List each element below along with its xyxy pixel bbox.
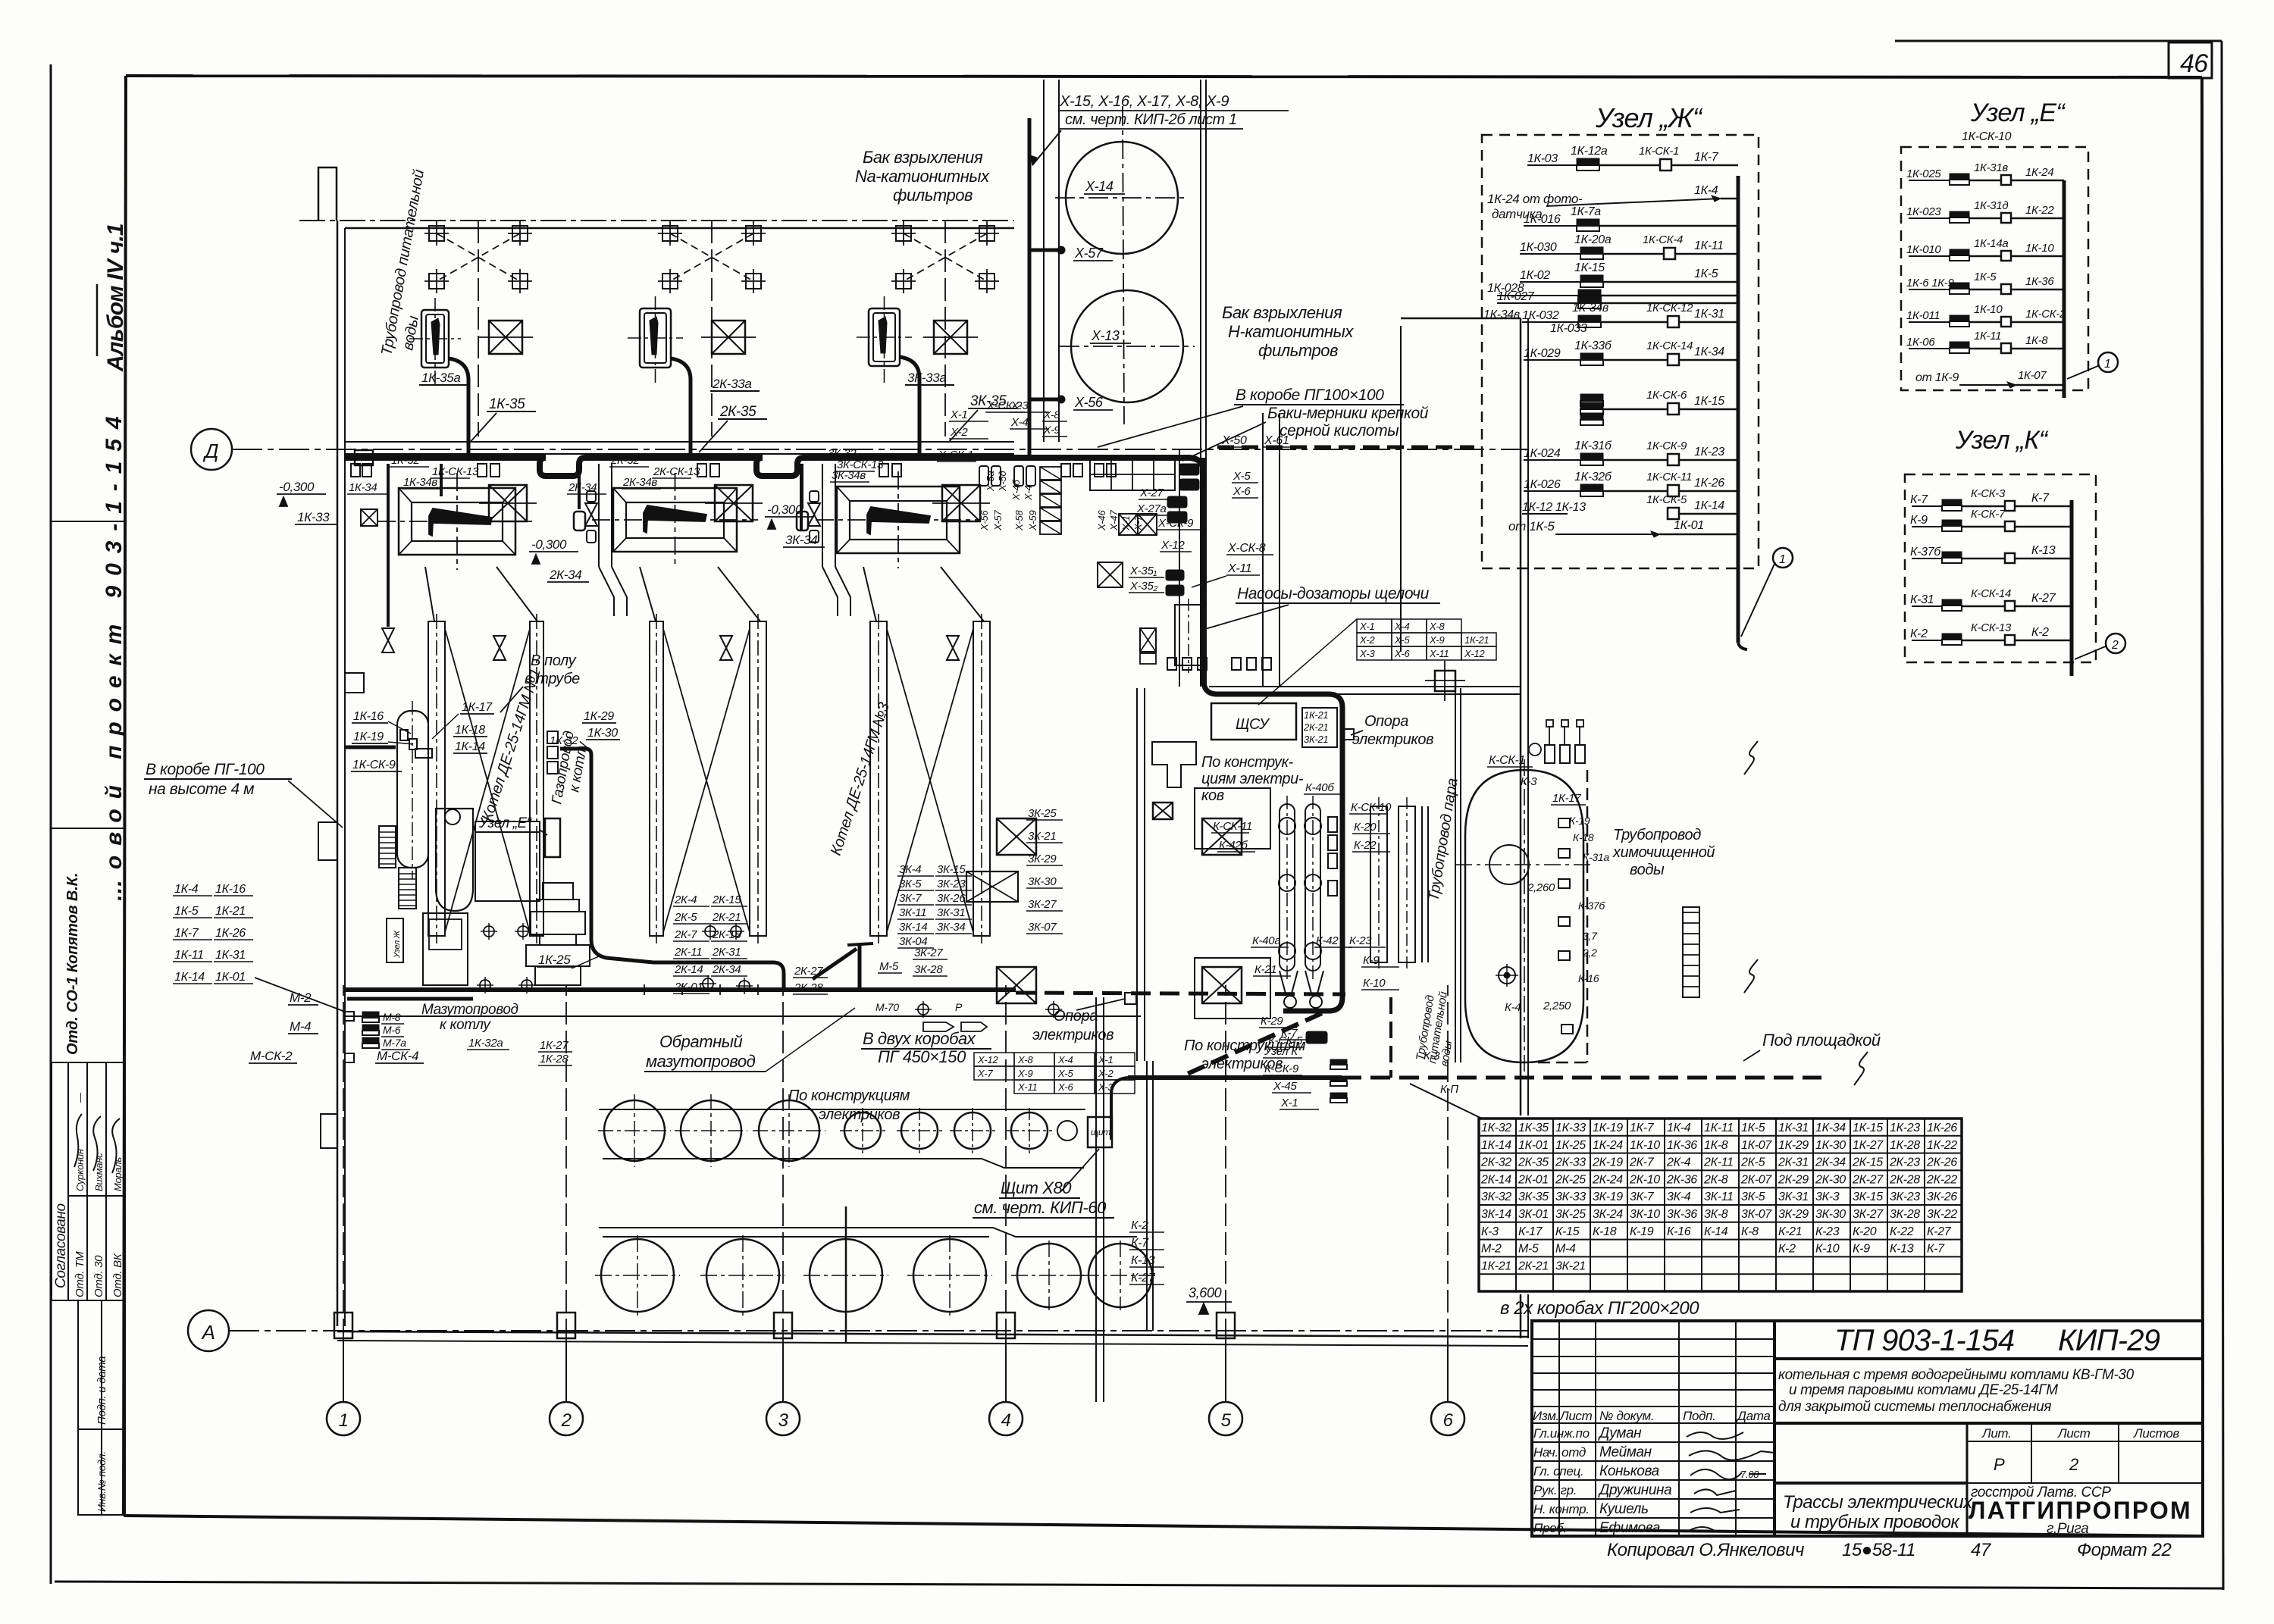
svg-text:Х-57: Х-57	[1074, 246, 1104, 261]
boiler 3 funnel	[863, 567, 876, 621]
svg-text:Р: Р	[955, 1001, 963, 1013]
svg-text:К-18: К-18	[1593, 1225, 1617, 1238]
svg-text:3К-27: 3К-27	[1853, 1208, 1884, 1221]
diagonal dashed to lower run	[1182, 1013, 1322, 1076]
small fixtures near drum	[400, 730, 408, 740]
svg-text:1К-25: 1К-25	[1555, 1139, 1586, 1152]
svg-text:1К-25: 1К-25	[538, 953, 571, 967]
leader from X-table	[1258, 619, 1357, 705]
svg-text:К-40б: К-40б	[1305, 781, 1334, 794]
svg-text:2К-4: 2К-4	[1666, 1156, 1691, 1169]
svg-text:Узел „Е“: Узел „Е“	[1970, 99, 2066, 127]
svg-text:К-40а: К-40а	[1252, 934, 1280, 947]
crossed box single	[1098, 562, 1123, 587]
svg-text:3К-21: 3К-21	[1555, 1259, 1586, 1272]
fixtures column x725	[547, 731, 558, 743]
svg-text:К-27: К-27	[1927, 1225, 1952, 1238]
svg-text:К-10: К-10	[1815, 1243, 1840, 1256]
svg-text:1К-35а: 1К-35а	[421, 371, 460, 385]
boiler 3 crossed box upper	[934, 321, 967, 354]
svg-text:3К-5: 3К-5	[1741, 1191, 1765, 1203]
svg-text:1К-32: 1К-32	[1481, 1122, 1511, 1134]
frame right	[2202, 77, 2203, 1536]
svg-text:5: 5	[1221, 1410, 1232, 1431]
svg-text:Х-1: Х-1	[950, 408, 967, 421]
svg-text:3К-7: 3К-7	[1630, 1191, 1655, 1203]
svg-text:Дата: Дата	[1736, 1409, 1771, 1423]
svg-text:1К-18: 1К-18	[455, 724, 485, 737]
svg-text:1К-024: 1К-024	[1524, 447, 1561, 460]
svg-text:Х-2: Х-2	[1098, 1068, 1114, 1079]
svg-text:1К-033: 1К-033	[1550, 322, 1587, 335]
svg-text:3К-33а: 3К-33а	[907, 371, 946, 385]
svg-text:1К-22: 1К-22	[2025, 204, 2054, 217]
svg-text:К-42: К-42	[1316, 934, 1339, 947]
svg-text:Х-9: Х-9	[1429, 634, 1444, 646]
svg-text:Обратный: Обратный	[659, 1032, 742, 1051]
svg-text:2К-21: 2К-21	[1303, 721, 1328, 733]
node Zh dashed box	[1482, 135, 1759, 568]
title block thick divider	[1773, 1321, 1776, 1536]
svg-text:1К-31: 1К-31	[215, 949, 246, 962]
svg-text:1К-34: 1К-34	[1694, 346, 1724, 358]
svg-text:К-СК-13: К-СК-13	[1971, 621, 2012, 634]
svg-text:на высоте 4 м: на высоте 4 м	[149, 781, 254, 798]
svg-text:3К-34: 3К-34	[937, 921, 965, 934]
big equipment rect	[475, 821, 540, 901]
svg-text:К-7: К-7	[2031, 492, 2050, 505]
svg-text:1К-10: 1К-10	[1630, 1139, 1660, 1152]
signature 6	[1689, 1527, 1715, 1531]
svg-text:2: 2	[2069, 1455, 2078, 1474]
frame top	[126, 76, 2202, 77]
svg-text:1К-16: 1К-16	[353, 710, 384, 723]
svg-text:Х-35₁: Х-35₁	[1129, 565, 1157, 577]
svg-text:Х-7: Х-7	[1132, 515, 1144, 531]
svg-text:2К-30: 2К-30	[1815, 1173, 1846, 1186]
svg-text:К-СК-7: К-СК-7	[1971, 508, 2006, 521]
svg-text:в трубе: в трубе	[525, 671, 580, 687]
boiler 1 brace X2	[445, 629, 530, 932]
svg-text:1К-7: 1К-7	[1694, 151, 1719, 164]
svg-text:1К-22: 1К-22	[1927, 1139, 1957, 1152]
sidebar cell inv no	[78, 1429, 125, 1515]
svg-text:№ докум.: № докум.	[1599, 1409, 1654, 1423]
svg-text:Х-47: Х-47	[1108, 510, 1120, 531]
wall crossed box	[361, 509, 377, 526]
dashed electric run to SCU	[1016, 993, 1345, 994]
svg-text:Х-6: Х-6	[1394, 648, 1410, 659]
svg-text:2К-10: 2К-10	[1629, 1173, 1660, 1186]
svg-text:М-2: М-2	[1481, 1243, 1502, 1256]
svg-text:3К-30: 3К-30	[1815, 1208, 1846, 1221]
svg-text:1К-31б: 1К-31б	[1574, 440, 1612, 452]
lit column	[1966, 1423, 1969, 1483]
svg-text:1К-СК-13: 1К-СК-13	[432, 465, 479, 478]
node K dashed box	[1905, 474, 2096, 662]
svg-text:1К-01: 1К-01	[215, 971, 246, 984]
svg-text:К-7: К-7	[1927, 1243, 1945, 1256]
svg-text:К-СК-10: К-СК-10	[1351, 801, 1392, 814]
svg-text:3К-10: 3К-10	[1630, 1208, 1660, 1221]
svg-text:1К-14: 1К-14	[174, 971, 205, 984]
svg-text:Х-59: Х-59	[1027, 511, 1038, 531]
svg-text:2К-18: 2К-18	[712, 928, 741, 941]
svg-text:Х-1: Х-1	[1120, 516, 1132, 531]
svg-text:1К-01: 1К-01	[1518, 1139, 1549, 1152]
svg-text:ТП 903-1-154: ТП 903-1-154	[1834, 1324, 2014, 1357]
svg-text:-0,300: -0,300	[279, 480, 315, 494]
svg-text:1К-5: 1К-5	[1694, 268, 1718, 280]
svg-text:Думан: Думан	[1598, 1425, 1642, 1441]
svg-text:1К-34: 1К-34	[1815, 1122, 1846, 1134]
X-table near SCU	[1357, 619, 1392, 633]
boiler 3 brace X1	[887, 629, 973, 932]
svg-text:Рук. гр.: Рук. гр.	[1533, 1483, 1577, 1497]
left wall niche 2	[318, 822, 337, 860]
svg-text:2К-31: 2К-31	[712, 946, 741, 959]
boiler 1 vertical unit	[421, 310, 449, 368]
svg-text:3К-24: 3К-24	[1593, 1208, 1623, 1221]
svg-text:1К-12а: 1К-12а	[1571, 145, 1608, 158]
svg-text:фильтров: фильтров	[1258, 341, 1338, 360]
svg-text:1К-15: 1К-15	[1853, 1122, 1883, 1134]
boiler 1 bath flag	[429, 508, 492, 536]
outer border left	[50, 64, 52, 1584]
svg-text:3К-7: 3К-7	[899, 892, 922, 905]
svg-text:2К-34: 2К-34	[549, 568, 581, 582]
svg-text:К-9: К-9	[1910, 514, 1928, 527]
svg-text:2К-27: 2К-27	[1852, 1173, 1884, 1186]
svg-text:1К-30: 1К-30	[587, 727, 618, 740]
svg-text:1К-7а: 1К-7а	[1571, 205, 1601, 218]
signature 1	[1687, 1432, 1743, 1439]
svg-text:К-15: К-15	[1555, 1225, 1580, 1238]
svg-text:1К-19: 1К-19	[353, 731, 384, 743]
axis A line	[229, 1330, 1528, 1331]
svg-text:2,250: 2,250	[1543, 1000, 1571, 1012]
svg-text:Гл. спец.: Гл. спец.	[1533, 1464, 1583, 1478]
svg-text:1К-СК-6: 1К-СК-6	[1646, 389, 1687, 402]
right wing top wall	[1401, 318, 1521, 320]
svg-text:15●58-11: 15●58-11	[1842, 1540, 1915, 1560]
dashed overlay near big tank	[1586, 770, 1589, 1062]
svg-text:3К-3: 3К-3	[1815, 1191, 1840, 1203]
uzel Zh vertical box	[387, 918, 403, 962]
svg-text:Копировал О.Янкелович: Копировал О.Янкелович	[1607, 1540, 1804, 1560]
svg-text:Мазутопровод: Мазутопровод	[421, 1002, 518, 1018]
svg-text:А: А	[201, 1321, 215, 1344]
svg-text:Х-2: Х-2	[1359, 634, 1375, 646]
svg-text:1К-21: 1К-21	[215, 905, 246, 918]
svg-text:1К-11: 1К-11	[1694, 239, 1724, 252]
svg-text:электриков: электриков	[1352, 731, 1433, 748]
svg-text:2К-34: 2К-34	[568, 481, 597, 494]
boiler 1 furnace strips	[428, 621, 445, 936]
svg-text:Х-4: Х-4	[1010, 416, 1028, 429]
svg-text:Отд. ТМ: Отд. ТМ	[74, 1251, 86, 1297]
svg-text:2К-11: 2К-11	[674, 946, 702, 959]
boiler 3 crossed box	[942, 485, 980, 521]
svg-text:Трубопровод: Трубопровод	[1613, 827, 1701, 843]
svg-text:Х-4: Х-4	[1394, 621, 1409, 632]
svg-text:К-19: К-19	[1569, 815, 1590, 827]
svg-text:1К-28: 1К-28	[540, 1053, 568, 1065]
svg-text:Х-3: Х-3	[1010, 399, 1029, 412]
svg-text:2К-19: 2К-19	[1592, 1156, 1623, 1169]
building top wall	[299, 220, 1014, 221]
svg-text:1К-24: 1К-24	[2025, 166, 2053, 179]
boiler 3 unit heavy drop	[900, 357, 919, 456]
svg-text:2К-34: 2К-34	[712, 963, 741, 976]
svg-text:К-13: К-13	[2031, 544, 2056, 557]
svg-text:М-СК-2: М-СК-2	[250, 1049, 293, 1063]
svg-text:от 1К-5: от 1К-5	[1508, 519, 1555, 534]
svg-text:1К-06: 1К-06	[1906, 336, 1935, 349]
uzel E heavy run	[560, 749, 784, 988]
svg-text:1К-СК-4: 1К-СК-4	[1643, 233, 1683, 246]
svg-text:Лист: Лист	[2057, 1426, 2091, 1441]
svg-text:1К-СК-5: 1К-СК-5	[1646, 493, 1687, 506]
svg-text:1К-023: 1К-023	[1906, 205, 1941, 218]
svg-text:1К-10: 1К-10	[1974, 303, 2003, 316]
heavy PG-100 stub	[345, 746, 396, 749]
node Zh trunk	[1737, 176, 1740, 643]
svg-text:1К-07: 1К-07	[2018, 369, 2047, 382]
small fixtures near columns	[1328, 817, 1337, 832]
svg-text:К-3: К-3	[1424, 1050, 1440, 1062]
svg-text:К-2: К-2	[1778, 1243, 1796, 1256]
sidebar signature 2	[93, 1116, 101, 1171]
heavy mark on tank 3	[845, 1206, 847, 1343]
svg-text:Х-6: Х-6	[1233, 485, 1251, 498]
svg-text:К-21: К-21	[1778, 1225, 1802, 1238]
svg-text:1К-14: 1К-14	[1481, 1139, 1511, 1152]
svg-text:—: —	[74, 1092, 86, 1103]
bay 2 centerline	[711, 221, 713, 437]
svg-text:Конькова: Конькова	[1599, 1463, 1659, 1479]
svg-text:2К-21: 2К-21	[1518, 1259, 1549, 1272]
svg-text:Nа-катионитных: Nа-катионитных	[855, 167, 990, 186]
svg-text:2К-07: 2К-07	[1740, 1173, 1772, 1186]
svg-text:1К-23: 1К-23	[1694, 446, 1724, 458]
big tank (deaerator)	[1465, 770, 1583, 1062]
boiler 2 crossed box upper	[712, 321, 745, 354]
hatched cell stack	[1040, 467, 1061, 480]
svg-text:Альбом IV ч.1: Альбом IV ч.1	[103, 224, 128, 372]
svg-text:2К-35: 2К-35	[719, 404, 756, 420]
svg-text:Х-5а: Х-5а	[985, 471, 996, 492]
svg-text:2К-22: 2К-22	[1926, 1173, 1957, 1186]
svg-text:3К-26: 3К-26	[1927, 1191, 1957, 1203]
svg-text:4: 4	[1001, 1410, 1011, 1431]
svg-text:Бак взрыхления: Бак взрыхления	[1222, 303, 1342, 322]
svg-text:47: 47	[1971, 1540, 1992, 1560]
svg-text:К-37б: К-37б	[1910, 546, 1941, 559]
svg-text:1К-21: 1К-21	[1304, 709, 1328, 721]
svg-text:3К-11: 3К-11	[899, 906, 926, 919]
svg-text:К-2: К-2	[1131, 1219, 1148, 1232]
svg-text:ЛАТГИПРОПРОМ: ЛАТГИПРОПРОМ	[1969, 1497, 2190, 1524]
svg-text:1К-27: 1К-27	[540, 1039, 568, 1052]
svg-text:3К-15: 3К-15	[937, 863, 966, 876]
svg-text:мазутопровод: мазутопровод	[646, 1052, 756, 1071]
svg-text:к котлу: к котлу	[440, 1017, 491, 1033]
svg-text:3К-31: 3К-31	[1778, 1191, 1809, 1203]
boiler 3 bath	[837, 487, 960, 553]
svg-text:3,7: 3,7	[1583, 930, 1598, 942]
svg-text:циям электри-: циям электри-	[1201, 771, 1304, 787]
platform row 1	[599, 1109, 1085, 1110]
svg-text:1К-СК-12: 1К-СК-12	[1646, 302, 1693, 314]
svg-text:К-31а: К-31а	[1583, 851, 1609, 863]
svg-text:1К-5: 1К-5	[1974, 271, 1997, 283]
svg-text:Согласовано: Согласовано	[53, 1203, 69, 1288]
svg-text:3,600: 3,600	[1189, 1285, 1222, 1300]
svg-text:1К-24: 1К-24	[1593, 1139, 1623, 1152]
svg-text:1К-8: 1К-8	[2025, 334, 2048, 347]
svg-text:К-13: К-13	[1890, 1243, 1914, 1256]
svg-text:М-6: М-6	[383, 1024, 401, 1036]
svg-text:К-4: К-4	[1505, 1001, 1521, 1014]
svg-text:1К-32: 1К-32	[391, 454, 420, 467]
svg-text:2К-5: 2К-5	[1740, 1156, 1765, 1169]
svg-text:2К-23: 2К-23	[1889, 1156, 1920, 1169]
svg-text:2К-32: 2К-32	[1480, 1156, 1511, 1169]
svg-text:2К-8: 2К-8	[1703, 1173, 1728, 1186]
heavy trunk lower leg	[1204, 458, 1342, 1011]
filter block	[423, 913, 468, 985]
svg-text:3К-31: 3К-31	[937, 906, 965, 919]
svg-text:Х-27: Х-27	[1139, 487, 1164, 499]
svg-text:3К-23: 3К-23	[1890, 1191, 1920, 1203]
svg-text:По конструк-: По конструк-	[1201, 754, 1294, 771]
svg-text:3К-07: 3К-07	[1028, 921, 1057, 934]
deaerator columns	[1280, 804, 1295, 971]
svg-text:1К-32б: 1К-32б	[1574, 471, 1612, 483]
svg-text:Трассы электрических: Трассы электрических	[1783, 1492, 1973, 1513]
svg-text:1К-14: 1К-14	[455, 740, 485, 753]
svg-text:К-14: К-14	[1704, 1225, 1728, 1238]
sensor block pairs below trunk	[979, 466, 988, 486]
svg-text:Узел „К“: Узел „К“	[1955, 426, 2049, 455]
inter-bay valve bowties	[382, 628, 394, 652]
svg-text:1К-33: 1К-33	[297, 510, 330, 524]
svg-text:Д: Д	[202, 440, 218, 462]
svg-text:К-20: К-20	[1853, 1225, 1877, 1238]
boiler 2 brace X2	[663, 629, 750, 932]
svg-text:2К-15: 2К-15	[712, 893, 741, 906]
merniki grid	[1090, 459, 1175, 490]
svg-text:воды: воды	[1630, 862, 1665, 878]
sidebar separator 2	[51, 828, 126, 829]
svg-text:К-9: К-9	[1853, 1243, 1870, 1256]
svg-text:Формат 22: Формат 22	[2077, 1540, 2171, 1560]
svg-text:Х-12: Х-12	[977, 1054, 998, 1065]
svg-text:1К-СК-9: 1К-СК-9	[1646, 440, 1687, 452]
svg-text:2К-29: 2К-29	[1778, 1173, 1809, 1186]
svg-text:см. черт. КИП-60: см. черт. КИП-60	[974, 1198, 1107, 1217]
svg-text:1К-14: 1К-14	[1694, 499, 1724, 512]
1K-25 heavy stub	[347, 997, 473, 1001]
sidebar signature 3	[112, 1119, 120, 1173]
valve symbols between baths	[578, 464, 581, 509]
svg-text:К-20: К-20	[1354, 821, 1377, 834]
svg-text:1К-32а: 1К-32а	[468, 1037, 503, 1050]
building left wall	[337, 221, 339, 1326]
partition walls verticals	[1136, 688, 1138, 1061]
svg-text:2,260: 2,260	[1527, 881, 1555, 894]
svg-text:2К-36: 2К-36	[1666, 1173, 1697, 1186]
axis column 3	[766, 1402, 800, 1435]
svg-text:Лит.: Лит.	[1981, 1426, 2011, 1441]
svg-text:7.08: 7.08	[1740, 1469, 1759, 1480]
dozator pump rect	[1175, 605, 1202, 665]
svg-text:1К-30: 1К-30	[1815, 1139, 1846, 1152]
svg-text:Х-8: Х-8	[1043, 408, 1060, 421]
svg-text:Баки-мерники крепкой: Баки-мерники крепкой	[1267, 405, 1429, 422]
right zone partition rects	[1195, 788, 1270, 849]
svg-text:М-5: М-5	[1518, 1243, 1539, 1256]
left wall niche 1	[345, 673, 364, 693]
svg-text:2К-21: 2К-21	[712, 911, 741, 924]
fixtures right of tank	[1558, 818, 1570, 828]
tank row 2	[601, 1239, 674, 1312]
svg-text:Х-12: Х-12	[1160, 539, 1185, 552]
outer border right	[2222, 41, 2223, 1590]
svg-text:М-4: М-4	[1555, 1243, 1576, 1256]
dashed run vertical at x1835	[1389, 997, 1392, 1078]
svg-text:и трубных проводок: и трубных проводок	[1790, 1512, 1961, 1532]
svg-text:Подп.: Подп.	[1683, 1409, 1716, 1423]
SCU panel	[1211, 703, 1296, 740]
svg-text:Х-15, Х-16, Х-17, Х-8, Х-9: Х-15, Х-16, Х-17, Х-8, Х-9	[1059, 93, 1229, 110]
boiler 3 brace X2	[887, 629, 973, 932]
svg-text:К-22: К-22	[1354, 839, 1377, 852]
outer border bottom	[55, 1582, 2222, 1588]
svg-text:Мораль: Мораль	[112, 1157, 124, 1191]
svg-text:Х-9: Х-9	[1043, 424, 1060, 436]
building bottom wall	[337, 1331, 1528, 1337]
svg-text:для закрытой системы теплоснаб: для закрытой системы теплоснабжения	[1778, 1399, 2051, 1415]
svg-text:1К-34в: 1К-34в	[1572, 302, 1608, 314]
svg-text:Х-9: Х-9	[1017, 1068, 1032, 1079]
svg-text:1К-10: 1К-10	[2025, 242, 2054, 255]
wall column box	[355, 450, 373, 465]
svg-text:3К-27: 3К-27	[914, 947, 943, 959]
svg-text:К-19: К-19	[1630, 1225, 1654, 1238]
svg-text:1: 1	[1779, 553, 1786, 566]
svg-text:см. черт. КИП-2б лист 1: см. черт. КИП-2б лист 1	[1065, 111, 1237, 128]
svg-text:1К-34в: 1К-34в	[1483, 308, 1520, 321]
svg-text:К-27: К-27	[2031, 592, 2056, 605]
platform row 2	[599, 1228, 1137, 1237]
svg-text:2К-4: 2К-4	[674, 893, 697, 906]
thin mazut line	[345, 1015, 1141, 1017]
svg-text:2К-24: 2К-24	[1592, 1173, 1623, 1186]
svg-text:1К-07: 1К-07	[1741, 1139, 1772, 1152]
svg-text:К-21: К-21	[1254, 963, 1276, 976]
svg-text:2: 2	[2111, 639, 2119, 652]
svg-text:К-9: К-9	[1363, 954, 1380, 967]
pipe rails	[1370, 806, 1387, 962]
svg-text:1К-СК-14: 1К-СК-14	[1646, 340, 1693, 352]
svg-text:3К-5: 3К-5	[899, 878, 922, 890]
svg-text:котельная с тремя водогрейными: котельная с тремя водогрейными котлами К…	[1778, 1367, 2135, 1383]
svg-text:Щит Х80: Щит Х80	[1001, 1178, 1072, 1197]
svg-text:М-5: М-5	[879, 960, 899, 973]
svg-text:Х-8: Х-8	[1017, 1054, 1033, 1065]
